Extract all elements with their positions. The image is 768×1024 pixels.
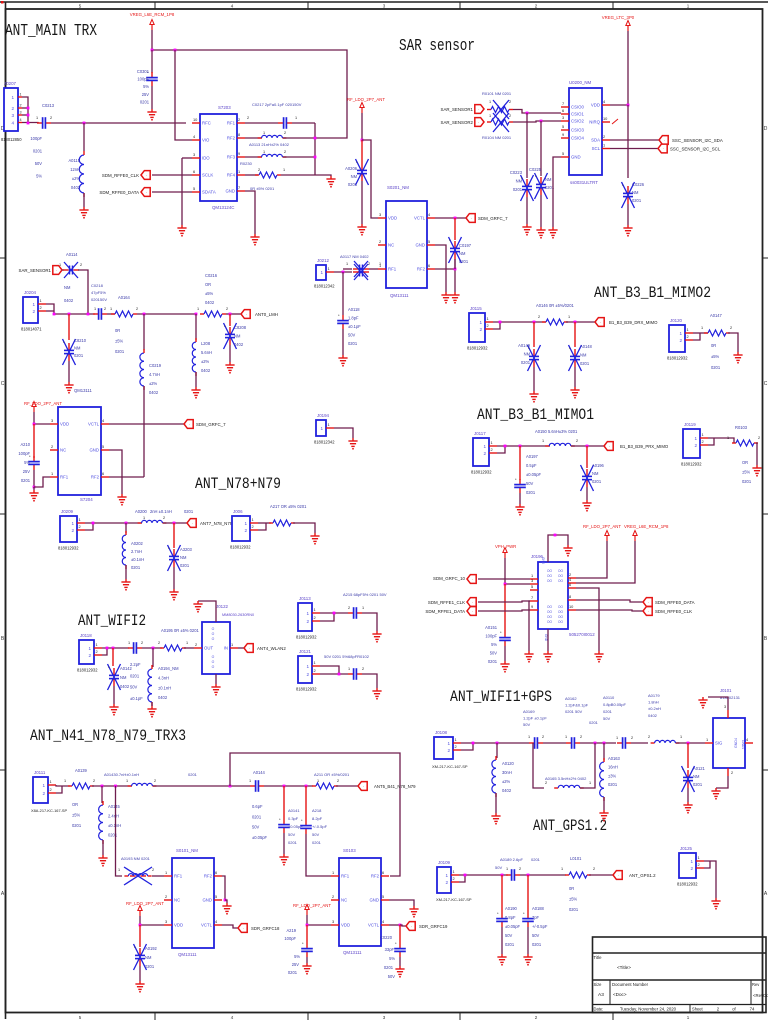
svg-text:1: 1 — [542, 439, 544, 443]
svg-text:J0125: J0125 — [680, 846, 693, 851]
svg-text:818012342: 818012342 — [314, 284, 335, 289]
svg-text:SAR_SENSOR2: SAR_SENSOR2 — [441, 120, 474, 125]
svg-text:4: 4 — [603, 99, 606, 104]
svg-text:1.2pF ±0.1pF: 1.2pF ±0.1pF — [523, 716, 547, 721]
svg-text:818012850: 818012850 — [1, 137, 22, 142]
svg-text:0201: 0201 — [505, 942, 515, 947]
svg-text:J0111: J0111 — [34, 770, 46, 775]
svg-text:1: 1 — [489, 100, 491, 104]
svg-text:2: 2 — [487, 323, 489, 328]
svg-text:2: 2 — [447, 748, 450, 753]
svg-text:VREG_L6E_RCM_1P8: VREG_L6E_RCM_1P8 — [130, 12, 175, 17]
svg-text:5: 5 — [562, 124, 564, 129]
svg-text:1: 1 — [64, 779, 66, 783]
svg-text:ANT0_LMH: ANT0_LMH — [255, 312, 278, 317]
svg-text:O: O — [212, 632, 215, 636]
svg-text:0.5pF: 0.5pF — [526, 463, 537, 468]
svg-text:2: 2 — [379, 239, 381, 244]
svg-text:NM: NM — [180, 555, 187, 560]
svg-text:1: 1 — [94, 307, 96, 311]
svg-text:1: 1 — [252, 517, 254, 522]
svg-text:GND: GND — [89, 448, 99, 453]
svg-text:50V 0201 5%68pFR0102: 50V 0201 5%68pFR0102 — [324, 654, 370, 659]
svg-text:0402: 0402 — [234, 342, 244, 347]
svg-text:RF1: RF1 — [341, 874, 350, 879]
svg-text:A0145: A0145 — [108, 804, 121, 809]
svg-text:2: 2 — [698, 862, 700, 867]
svg-text:0201: 0201 — [521, 360, 531, 365]
svg-text:1: 1 — [687, 327, 689, 332]
svg-text:2: 2 — [88, 653, 91, 658]
svg-text:1: 1 — [118, 868, 120, 872]
svg-text:J0101: J0101 — [720, 688, 732, 693]
svg-text:NM: NM — [74, 346, 81, 351]
svg-text:O: O — [212, 655, 215, 659]
svg-text:1: 1 — [244, 521, 247, 526]
svg-text:2: 2 — [690, 866, 693, 871]
svg-text:50V: 50V — [130, 685, 138, 690]
svg-text:J0117: J0117 — [474, 431, 486, 436]
svg-text:SDM_GRFC_10: SDM_GRFC_10 — [433, 576, 466, 581]
svg-text:·: · — [249, 646, 250, 651]
svg-text:2: 2 — [258, 168, 260, 172]
svg-text:RF2: RF2 — [371, 874, 380, 879]
svg-text:7: 7 — [238, 185, 240, 190]
svg-text:B: B — [764, 636, 768, 642]
svg-text:NM: NM — [64, 285, 71, 290]
svg-text:3: 3 — [332, 919, 334, 924]
svg-text:·: · — [146, 173, 147, 178]
svg-text:OUT: OUT — [204, 646, 213, 651]
svg-text:2: 2 — [337, 779, 339, 783]
svg-text:25V: 25V — [142, 92, 150, 97]
svg-text:C0219: C0219 — [149, 363, 162, 368]
svg-text:0201: 0201 — [488, 659, 498, 664]
svg-text:1: 1 — [727, 436, 729, 440]
svg-text:30nH: 30nH — [502, 770, 512, 775]
svg-text:0402: 0402 — [502, 788, 512, 793]
svg-text:RF2: RF2 — [417, 267, 426, 272]
svg-text:1: 1 — [71, 521, 74, 526]
svg-text:A0179: A0179 — [648, 693, 660, 698]
svg-text:GND: GND — [571, 155, 581, 160]
svg-text:A0162: A0162 — [565, 696, 577, 701]
svg-text:1: 1 — [702, 432, 704, 437]
svg-text:NM: NM — [459, 251, 466, 256]
svg-text:47pF5%: 47pF5% — [91, 290, 106, 295]
svg-text:4: 4 — [746, 737, 749, 742]
svg-text:±2%: ±2% — [502, 779, 511, 784]
svg-text:1: 1 — [263, 150, 265, 154]
svg-text:0201 50V: 0201 50V — [565, 709, 582, 714]
svg-text:OO: OO — [547, 615, 552, 619]
svg-text:NM: NM — [351, 174, 358, 179]
svg-text:OO: OO — [547, 605, 552, 609]
svg-text:NC: NC — [341, 898, 347, 903]
svg-text:*: * — [301, 818, 303, 823]
svg-text:2: 2 — [136, 307, 138, 311]
svg-text:50V: 50V — [505, 933, 513, 938]
svg-text:VDD: VDD — [591, 103, 600, 108]
svg-text:16nH: 16nH — [608, 765, 618, 770]
svg-text:±2%: ±2% — [201, 359, 210, 364]
svg-text:2: 2 — [96, 649, 98, 654]
svg-text:ANT_N41_N78_N79_TRX3: ANT_N41_N78_N79_TRX3 — [30, 727, 186, 745]
svg-text:·: · — [472, 600, 473, 605]
svg-text:C0197: C0197 — [459, 243, 472, 248]
svg-text:0402: 0402 — [205, 300, 215, 305]
svg-text:<Doc>: <Doc> — [613, 992, 627, 997]
svg-text:SIG: SIG — [715, 741, 723, 746]
svg-text:1: 1 — [11, 95, 14, 100]
svg-text:OR: OR — [72, 802, 78, 807]
svg-text:OR: OR — [742, 460, 748, 465]
svg-text:Rev: Rev — [752, 982, 760, 987]
svg-text:<Title>: <Title> — [617, 965, 631, 970]
svg-text:·: · — [146, 190, 147, 195]
svg-text:ANT_WIFI1+GPS: ANT_WIFI1+GPS — [450, 688, 552, 706]
svg-text:1: 1 — [50, 779, 52, 784]
svg-text:1: 1 — [295, 116, 297, 120]
svg-text:74: 74 — [750, 1007, 755, 1012]
svg-text:0201: 0201 — [288, 840, 298, 845]
svg-text:ANT7_N78_N79: ANT7_N78_N79 — [200, 521, 233, 526]
svg-text:A217 OR ±5% 0201: A217 OR ±5% 0201 — [270, 504, 307, 509]
svg-text:2: 2 — [51, 444, 53, 449]
svg-text:8: 8 — [238, 132, 240, 137]
svg-text:±5%: ±5% — [205, 291, 214, 296]
svg-text:NC: NC — [60, 448, 66, 453]
svg-text:2: 2 — [631, 736, 633, 740]
svg-text:OO: OO — [558, 579, 563, 583]
svg-text:NM: NM — [580, 353, 587, 358]
svg-text:1: 1 — [36, 116, 38, 120]
svg-text:2: 2 — [104, 307, 106, 311]
svg-text:0R: 0R — [711, 343, 716, 348]
svg-text:020150V: 020150V — [91, 297, 107, 302]
svg-text:25V: 25V — [23, 469, 31, 474]
svg-text:2: 2 — [195, 642, 197, 647]
svg-text:OO: OO — [558, 615, 563, 619]
svg-text:0201: 0201 — [608, 782, 618, 787]
svg-text:±2%: ±2% — [72, 176, 81, 181]
svg-text:818012932: 818012932 — [58, 546, 79, 551]
svg-text:A0115: A0115 — [68, 158, 80, 163]
svg-text:L0101: L0101 — [570, 856, 582, 861]
svg-text:A215 68pF5% 0201 50V: A215 68pF5% 0201 50V — [343, 592, 387, 597]
svg-text:1: 1 — [706, 737, 708, 742]
svg-text:2: 2 — [687, 334, 689, 339]
svg-text:SDM_RFFE0_CLK: SDM_RFFE0_CLK — [102, 173, 139, 178]
svg-text:A0113 21nH±2% 0402: A0113 21nH±2% 0402 — [249, 142, 290, 147]
svg-text:2: 2 — [479, 327, 482, 332]
svg-text:SDR_GRFC19: SDR_GRFC19 — [419, 924, 448, 929]
svg-text:1: 1 — [362, 606, 364, 610]
svg-text:A0148: A0148 — [580, 344, 593, 349]
svg-text:2: 2 — [545, 781, 547, 785]
svg-text:GND4: GND4 — [734, 738, 738, 748]
svg-text:50V: 50V — [490, 651, 498, 656]
svg-text:·: · — [471, 216, 472, 221]
svg-text:1: 1 — [143, 516, 145, 520]
svg-text:2: 2 — [648, 735, 650, 739]
svg-text:1: 1 — [489, 114, 491, 118]
svg-text:50V: 50V — [495, 865, 502, 870]
svg-text:·: · — [243, 926, 244, 931]
svg-text:2: 2 — [717, 1007, 720, 1012]
svg-text:S0103: S0103 — [343, 848, 356, 853]
svg-text:0201: 0201 — [74, 353, 84, 358]
svg-text:2: 2 — [453, 876, 455, 881]
svg-text:J0119: J0119 — [684, 422, 696, 427]
svg-text:3: 3 — [383, 4, 386, 9]
svg-text:C0223: C0223 — [510, 170, 523, 175]
svg-text:C8208: C8208 — [234, 325, 247, 330]
svg-text:1: 1 — [687, 1015, 690, 1020]
svg-text:·: · — [663, 146, 664, 151]
svg-text:O: O — [212, 660, 215, 664]
svg-text:1: 1 — [701, 326, 703, 330]
svg-text:1: 1 — [679, 331, 682, 336]
svg-text:0201: 0201 — [72, 823, 82, 828]
svg-text:1: 1 — [561, 867, 563, 871]
svg-text:C0216: C0216 — [205, 273, 218, 278]
svg-text:ANT_N78+N79: ANT_N78+N79 — [195, 475, 281, 493]
svg-text:0201: 0201 — [384, 965, 394, 970]
svg-text:100pF: 100pF — [137, 77, 149, 82]
svg-text:2: 2 — [42, 791, 45, 796]
svg-text:±5%: ±5% — [711, 354, 720, 359]
svg-text:505270I0012: 505270I0012 — [569, 632, 595, 637]
svg-text:2: 2 — [71, 528, 74, 533]
svg-text:7: 7 — [531, 595, 533, 600]
svg-text:1.2pF&0.1pF: 1.2pF&0.1pF — [565, 703, 589, 708]
svg-text:C0220: C0220 — [380, 935, 393, 940]
svg-text:0402: 0402 — [71, 185, 81, 190]
svg-text:2: 2 — [244, 528, 247, 533]
svg-text:0.8pB0.05pF: 0.8pB0.05pF — [603, 702, 626, 707]
svg-text:3: 3 — [165, 919, 167, 924]
svg-text:XM-217-KC-167-SP: XM-217-KC-167-SP — [432, 764, 468, 769]
svg-text:RF1: RF1 — [388, 267, 397, 272]
svg-text:±0.05pF: ±0.05pF — [252, 835, 267, 840]
svg-text:10: 10 — [193, 117, 198, 122]
svg-text:C: C — [1, 381, 5, 387]
svg-text:4: 4 — [193, 134, 196, 139]
svg-text:1: 1 — [455, 737, 457, 742]
svg-text:1: 1 — [487, 316, 489, 321]
svg-text:0201: 0201 — [459, 259, 469, 264]
svg-text:0201: 0201 — [312, 840, 322, 845]
svg-text:C0218: C0218 — [91, 283, 104, 288]
svg-text:ANT_GPS1.2: ANT_GPS1.2 — [533, 817, 607, 835]
svg-text:4: 4 — [428, 212, 431, 217]
svg-text:*: * — [338, 313, 340, 318]
svg-text:±0.1nH: ±0.1nH — [108, 823, 121, 828]
svg-text:3: 3 — [193, 152, 195, 157]
svg-text:J0109: J0109 — [438, 860, 451, 865]
svg-text:2.2pF: 2.2pF — [130, 662, 141, 667]
svg-text:Sheet: Sheet — [692, 1007, 704, 1012]
svg-text:818012932: 818012932 — [667, 356, 688, 361]
svg-text:ANT_WIFI2: ANT_WIFI2 — [78, 612, 146, 630]
svg-text:5%: 5% — [36, 174, 42, 179]
svg-text:A0193 NM 0201: A0193 NM 0201 — [121, 856, 151, 861]
svg-text:2: 2 — [445, 880, 448, 885]
svg-text:SDM_GRFC_7: SDM_GRFC_7 — [196, 422, 226, 427]
svg-text:1: 1 — [589, 781, 591, 785]
svg-text:3: 3 — [562, 115, 564, 120]
svg-text:A219: A219 — [286, 928, 296, 933]
svg-text:U0200_NM: U0200_NM — [569, 80, 592, 85]
svg-text:2: 2 — [284, 150, 286, 154]
svg-text:4: 4 — [382, 919, 385, 924]
svg-text:1: 1 — [40, 298, 42, 303]
svg-text:25V: 25V — [292, 962, 300, 967]
svg-text:0201: 0201 — [348, 341, 358, 346]
svg-text:Title: Title — [594, 955, 603, 960]
svg-text:RF_LDO_2P7_ANT: RF_LDO_2P7_ANT — [347, 97, 385, 102]
svg-text:0201: 0201 — [21, 478, 31, 483]
svg-text:A3203: A3203 — [180, 547, 193, 552]
svg-text:2: 2 — [79, 524, 81, 529]
svg-text:CSIO3: CSIO3 — [571, 128, 585, 133]
svg-text:QM13111: QM13111 — [74, 388, 92, 393]
svg-text:2: 2 — [576, 439, 578, 443]
svg-text:A0141: A0141 — [288, 808, 300, 813]
svg-text:5: 5 — [382, 894, 384, 899]
svg-text:C0226: C0226 — [632, 182, 645, 187]
svg-text:±0.1pF: ±0.1pF — [348, 324, 361, 329]
svg-text:RF1: RF1 — [174, 874, 183, 879]
svg-text:1: 1 — [690, 859, 693, 864]
svg-text:0201: 0201 — [180, 563, 190, 568]
svg-text:SAR sensor: SAR sensor — [399, 37, 475, 56]
svg-text:1: 1 — [128, 641, 130, 645]
svg-text:QM13111: QM13111 — [178, 952, 197, 957]
svg-text:818014071: 818014071 — [21, 327, 42, 332]
svg-text:O: O — [212, 627, 215, 631]
svg-text:C8210: C8210 — [74, 338, 87, 343]
svg-text:VDD: VDD — [60, 422, 69, 427]
svg-text:0201: 0201 — [145, 964, 155, 969]
svg-text:·: · — [363, 784, 364, 789]
svg-text:2: 2 — [535, 4, 538, 9]
svg-text:QM13111: QM13111 — [343, 950, 362, 955]
svg-text:SDM_GRFC_7: SDM_GRFC_7 — [478, 216, 508, 221]
svg-text:2: 2 — [593, 867, 595, 871]
svg-text:1: 1 — [447, 741, 450, 746]
svg-text:VREG_L6E_RCM_1P8: VREG_L6E_RCM_1P8 — [624, 524, 669, 529]
svg-text:RF2: RF2 — [227, 136, 236, 141]
svg-text:SSC_SENSOR_I2C_SDA: SSC_SENSOR_I2C_SDA — [672, 138, 723, 143]
svg-text:8: 8 — [569, 594, 571, 599]
svg-text:1.8nH: 1.8nH — [648, 700, 659, 705]
svg-text:818012932: 818012932 — [471, 470, 492, 475]
svg-text:NM: NM — [632, 190, 639, 195]
svg-text:2.7nH: 2.7nH — [131, 549, 142, 554]
svg-text:3: 3 — [11, 113, 14, 118]
svg-text:2: 2 — [535, 1015, 538, 1020]
svg-text:·: · — [609, 444, 610, 449]
svg-text:3: 3 — [531, 578, 533, 583]
svg-text:NIRQ: NIRQ — [589, 120, 600, 125]
svg-text:·: · — [246, 312, 247, 317]
svg-text:·: · — [618, 873, 619, 878]
svg-text:J0207: J0207 — [4, 81, 17, 86]
svg-text:1: 1 — [680, 735, 682, 739]
svg-text:A0118: A0118 — [348, 307, 360, 312]
svg-text:2: 2 — [50, 787, 52, 792]
svg-text:0201: 0201 — [532, 942, 542, 947]
svg-text:1: 1 — [506, 867, 508, 871]
svg-text:2: 2 — [519, 867, 521, 871]
svg-text:J0115: J0115 — [470, 306, 482, 311]
svg-text:A0197: A0197 — [526, 454, 539, 459]
svg-text:6: 6 — [102, 471, 104, 476]
svg-text:1: 1 — [306, 664, 309, 669]
svg-text:VCTL: VCTL — [368, 923, 380, 928]
svg-text:RF2: RF2 — [91, 475, 100, 480]
svg-text:A: A — [1, 891, 5, 897]
svg-text:A0146 0R ±5%/0201: A0146 0R ±5%/0201 — [536, 303, 574, 308]
svg-text:1.8pF: 1.8pF — [348, 316, 359, 321]
svg-text:NM: NM — [516, 179, 523, 184]
svg-text:0402: 0402 — [64, 298, 74, 303]
svg-text:VIO: VIO — [202, 138, 210, 143]
svg-text:33pF: 33pF — [385, 947, 395, 952]
svg-text:A211 OR ±5%/0201: A211 OR ±5%/0201 — [314, 772, 350, 777]
svg-text:1: 1 — [479, 320, 482, 325]
svg-text:1: 1 — [687, 4, 690, 9]
svg-text:GND: GND — [225, 189, 235, 194]
svg-text:VDD: VDD — [174, 923, 183, 928]
svg-text:GND: GND — [369, 898, 379, 903]
svg-text:VPH_PWR: VPH_PWR — [495, 544, 516, 549]
svg-text:2: 2 — [306, 672, 309, 677]
svg-text:7: 7 — [562, 101, 564, 106]
svg-text:4: 4 — [215, 919, 218, 924]
svg-text:100pF: 100pF — [485, 634, 497, 639]
svg-text:10: 10 — [569, 604, 574, 609]
svg-text:2: 2 — [362, 667, 364, 671]
svg-text:1: 1 — [197, 307, 199, 311]
svg-text:50V: 50V — [35, 161, 43, 166]
svg-text:0201: 0201 — [513, 187, 523, 192]
svg-text:·: · — [189, 422, 190, 427]
svg-text:·: · — [472, 609, 473, 614]
svg-text:±5%: ±5% — [72, 813, 81, 818]
svg-text:SAR_SENSOR1: SAR_SENSOR1 — [441, 107, 474, 112]
svg-text:2: 2 — [152, 868, 154, 872]
svg-text:0R ±5% 0201: 0R ±5% 0201 — [250, 186, 275, 191]
svg-text:*: * — [523, 911, 525, 916]
svg-text:4: 4 — [231, 1015, 234, 1020]
svg-text:XM-217-KC-167-SP: XM-217-KC-167-SP — [436, 897, 472, 902]
svg-text:·: · — [56, 268, 57, 273]
svg-text:GND: GND — [541, 557, 545, 565]
svg-text:0402: 0402 — [648, 713, 658, 718]
svg-text:J0122: J0122 — [216, 604, 229, 609]
svg-text:*: * — [395, 941, 397, 946]
svg-text:*: * — [497, 911, 499, 916]
svg-text:5%: 5% — [294, 954, 300, 959]
svg-text:2: 2 — [603, 134, 605, 139]
svg-text:RF1: RF1 — [227, 121, 236, 126]
svg-text:L208: L208 — [201, 341, 211, 346]
svg-text:5: 5 — [531, 584, 533, 589]
svg-text:J0118: J0118 — [80, 633, 92, 638]
